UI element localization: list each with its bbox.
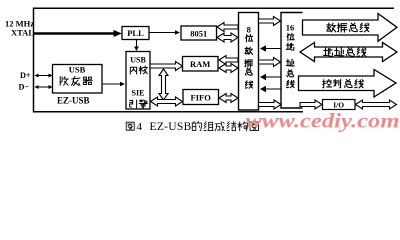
svg-text:www.cediy.com: www.cediy.com: [246, 109, 400, 133]
svg-text:USB: USB: [130, 56, 146, 65]
svg-text:8051: 8051: [190, 29, 207, 39]
svg-text:RAM: RAM: [190, 59, 210, 69]
svg-text:4: 4: [137, 121, 143, 133]
svg-text:SIE: SIE: [132, 89, 145, 98]
svg-text:D+: D+: [20, 71, 31, 80]
svg-text:USB: USB: [69, 65, 86, 75]
svg-text:8: 8: [247, 25, 251, 35]
svg-text:PLL: PLL: [127, 28, 144, 38]
svg-text:D−: D−: [19, 83, 30, 92]
svg-text:XTAL: XTAL: [11, 28, 34, 38]
svg-text:16: 16: [286, 23, 295, 33]
svg-text:EZ-USB: EZ-USB: [57, 96, 90, 106]
svg-text:EZ-USB: EZ-USB: [150, 121, 192, 133]
svg-text:FIFO: FIFO: [191, 93, 212, 103]
